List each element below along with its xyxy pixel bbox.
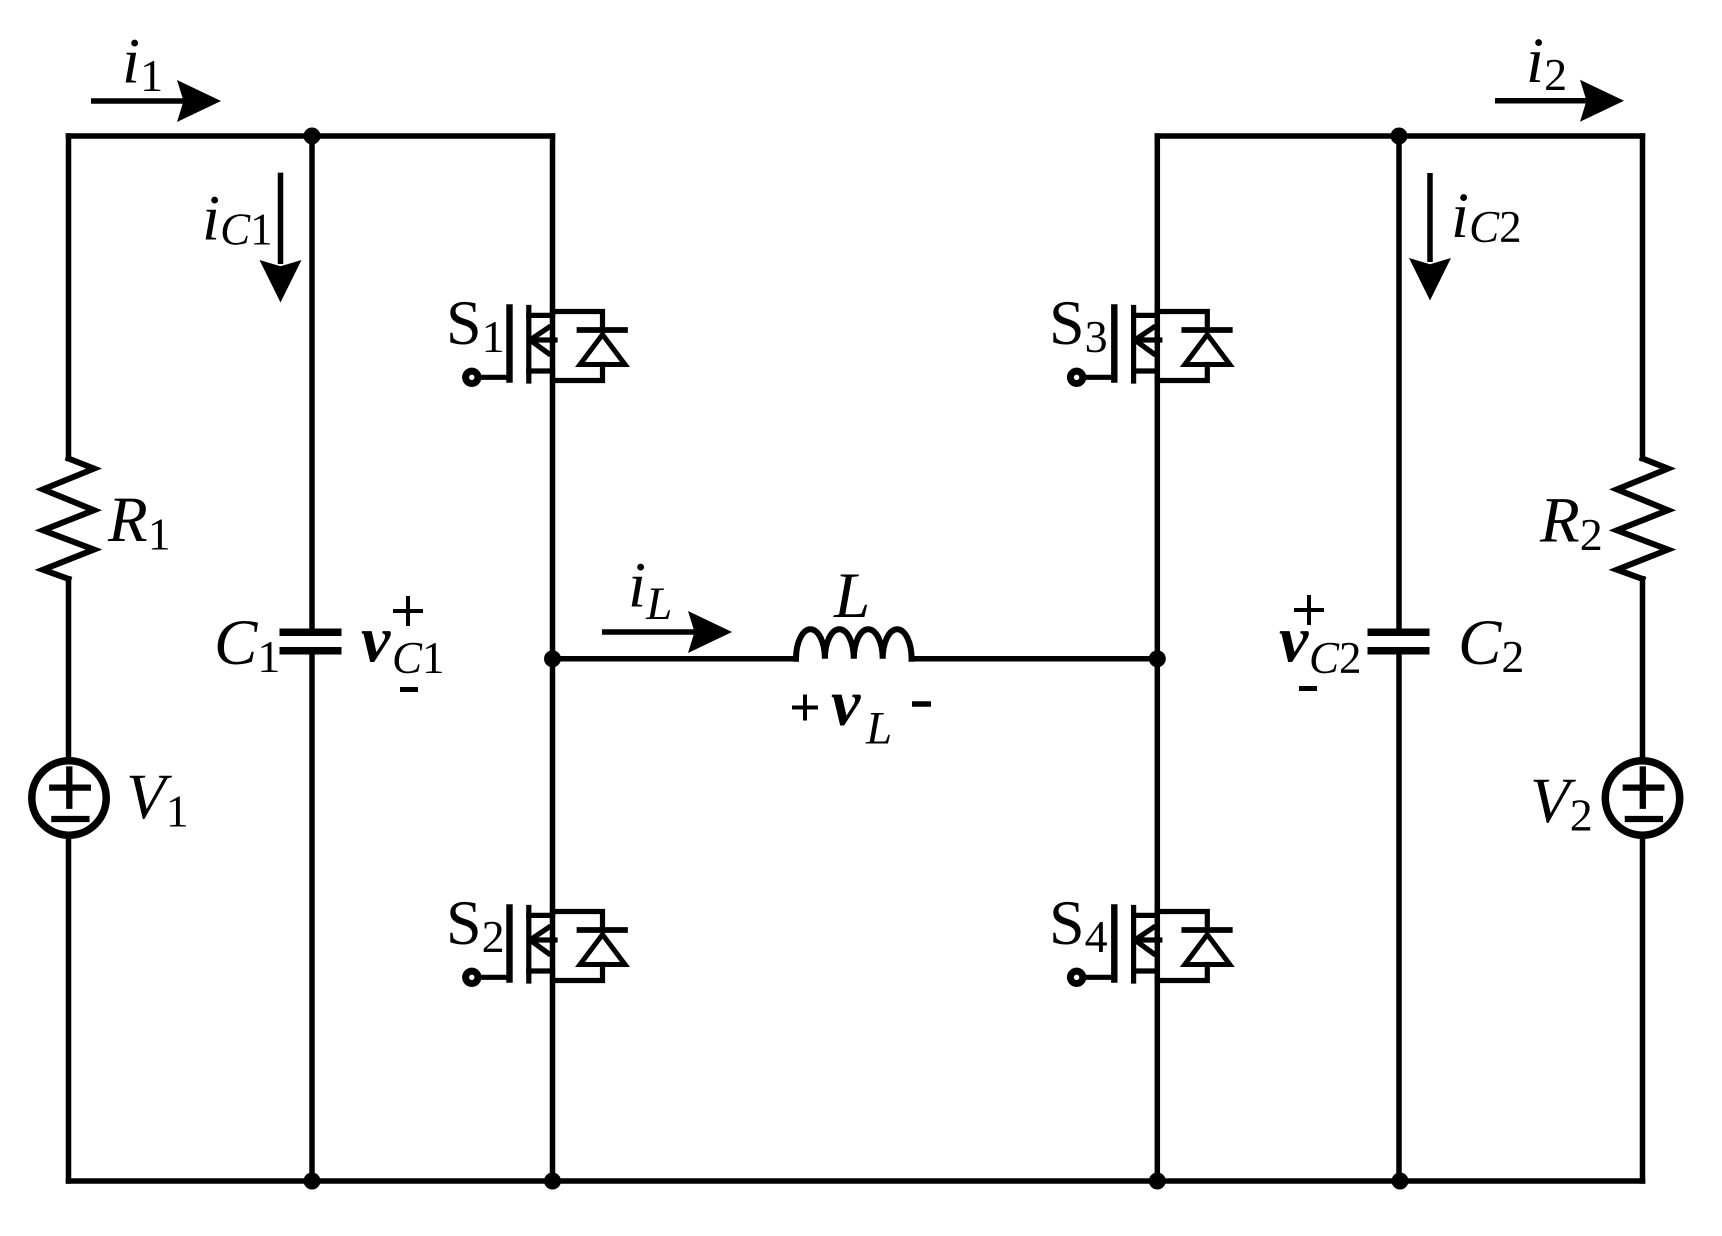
- svg-text:V2: V2: [1530, 765, 1593, 841]
- S4 body diode cathode bar: [1184, 927, 1230, 933]
- V1 minus mark: [54, 816, 86, 822]
- transistor S3 (MOSFET with body diode): [1070, 308, 1229, 384]
- S3 body arrow: [1135, 328, 1160, 354]
- S1 body diode return wire: [553, 365, 603, 381]
- wire switch leg left (S1/S2 branch): [550, 136, 556, 1181]
- wire right outer top segment: [1640, 136, 1646, 459]
- S1 gate bar: [506, 308, 512, 380]
- svg-text:S3: S3: [1049, 287, 1108, 362]
- current arrow iC2: [1409, 173, 1451, 301]
- voltage source V1: [32, 761, 106, 835]
- wire middle left (node A to inductor): [553, 656, 797, 662]
- C1 bottom plate: [280, 647, 342, 655]
- S3 gate terminal circle: [1070, 371, 1082, 383]
- S2 gate terminal circle: [466, 971, 478, 983]
- svg-text:iC1: iC1: [202, 183, 273, 255]
- wire bottom horizontal bus: [69, 1178, 1643, 1184]
- svg-text:iL: iL: [628, 550, 672, 631]
- S1 drain stub wire: [529, 313, 553, 318]
- capacitor C1: [280, 632, 342, 651]
- S2 body diode return wire: [553, 965, 603, 981]
- node A middle-left junction: [544, 650, 561, 667]
- resistor R2: [1617, 459, 1668, 579]
- svg-text:v: v: [361, 604, 391, 677]
- V2 minus mark: [1628, 816, 1660, 822]
- svg-text:C1: C1: [214, 607, 280, 682]
- capacitor C2: [1368, 632, 1430, 651]
- svg-text:S2: S2: [446, 887, 505, 962]
- svg-text:v: v: [1279, 604, 1309, 677]
- S2 body diode triangle: [580, 935, 625, 965]
- node B middle-right junction: [1149, 650, 1166, 667]
- svg-text:i1: i1: [122, 26, 163, 102]
- S2 drain stub wire: [529, 913, 553, 918]
- S1 body diode anode-cathode loop wire: [553, 312, 603, 331]
- S2 source stub wire: [529, 968, 553, 973]
- S2 channel dashes: [526, 908, 531, 982]
- inductor L: [796, 629, 912, 659]
- S3 body diode cathode bar: [1184, 327, 1230, 333]
- S3 body diode anode-cathode loop wire: [1157, 312, 1207, 331]
- svg-text:S1: S1: [446, 287, 505, 362]
- wire left outer middle segment: [66, 579, 72, 760]
- S3 body diode return wire: [1157, 365, 1207, 381]
- current arrow iL: [602, 611, 732, 653]
- S4 body diode return wire: [1157, 965, 1207, 981]
- wire C1 branch upper: [309, 136, 315, 629]
- V2 plus mark: [1626, 770, 1662, 806]
- S2 gate lead wire: [478, 975, 510, 980]
- S4 gate terminal circle: [1070, 971, 1082, 983]
- C1 top plate: [280, 629, 342, 637]
- wire left outer bottom segment: [66, 836, 72, 1181]
- S3 gate bar: [1111, 308, 1117, 380]
- wire C2 branch upper: [1396, 136, 1402, 629]
- wire switch leg right (S3/S4 branch): [1155, 136, 1161, 1181]
- C2 top plate: [1368, 629, 1430, 637]
- node bottom junction S leg right: [1149, 1173, 1166, 1190]
- S1 body arrow: [530, 328, 555, 354]
- S4 body arrow: [1135, 928, 1160, 954]
- S4 drain stub wire: [1134, 913, 1158, 918]
- S4 body diode triangle: [1185, 935, 1230, 965]
- wire top bus right segment: [1157, 133, 1642, 139]
- node top-right junction: [1391, 128, 1408, 145]
- svg-text:C2: C2: [1458, 607, 1524, 682]
- node bottom junction S leg left: [544, 1173, 561, 1190]
- svg-text:i2: i2: [1526, 25, 1567, 100]
- S1 gate lead wire: [478, 375, 510, 380]
- svg-text:L: L: [865, 703, 892, 755]
- S4 gate bar: [1111, 908, 1117, 980]
- svg-text:C1: C1: [392, 633, 445, 683]
- wire right outer bottom segment: [1640, 836, 1646, 1181]
- transistor S4 (MOSFET with body diode): [1070, 908, 1229, 984]
- current arrow i1: [91, 80, 221, 122]
- label vL with polarity: [792, 667, 931, 755]
- S2 body diode cathode bar: [580, 927, 626, 933]
- S1 gate terminal circle: [466, 371, 478, 383]
- svg-text:v: v: [831, 667, 861, 740]
- transistor S2 (MOSFET with body diode): [466, 908, 625, 984]
- node top-left junction: [304, 128, 321, 145]
- S3 drain stub wire: [1134, 313, 1158, 318]
- S4 channel dashes: [1131, 908, 1136, 982]
- S2 body arrow: [530, 928, 555, 954]
- resistor R1: [43, 459, 94, 579]
- svg-text:V1: V1: [126, 761, 189, 837]
- V1 plus mark: [52, 770, 88, 806]
- wire top bus left segment: [69, 133, 553, 139]
- label vC1 with polarity: [361, 596, 445, 690]
- wire middle right (inductor to node B): [912, 656, 1158, 662]
- S2 gate bar: [506, 908, 512, 980]
- svg-text:S4: S4: [1049, 887, 1108, 962]
- wire right outer middle segment: [1640, 579, 1646, 760]
- C2 bottom plate: [1368, 647, 1430, 655]
- current arrow iC1: [260, 173, 302, 303]
- S3 body diode triangle: [1185, 335, 1230, 365]
- svg-text:C2: C2: [1309, 633, 1362, 683]
- S1 source stub wire: [529, 368, 553, 373]
- S3 gate lead wire: [1083, 375, 1115, 380]
- node bottom junction C1: [304, 1173, 321, 1190]
- svg-text:iC2: iC2: [1451, 180, 1522, 252]
- current arrow i2: [1495, 80, 1624, 122]
- S1 body diode cathode bar: [580, 327, 626, 333]
- wire C2 branch lower: [1396, 655, 1402, 1182]
- S1 body diode triangle: [580, 335, 625, 365]
- wire left outer top segment: [66, 136, 72, 459]
- transistor S1 (MOSFET with body diode): [466, 308, 625, 384]
- S2 body diode anode-cathode loop wire: [553, 912, 603, 931]
- S4 body diode anode-cathode loop wire: [1157, 912, 1207, 931]
- S3 channel dashes: [1131, 308, 1136, 382]
- label vC2 with polarity: [1279, 595, 1362, 689]
- svg-text:R2: R2: [1539, 485, 1603, 561]
- S3 source stub wire: [1134, 368, 1158, 373]
- S4 source stub wire: [1134, 968, 1158, 973]
- wire C1 branch lower: [309, 655, 315, 1182]
- S1 channel dashes: [526, 308, 531, 382]
- node bottom junction C2: [1392, 1173, 1409, 1190]
- S4 gate lead wire: [1083, 975, 1115, 980]
- voltage source V2: [1605, 761, 1679, 835]
- svg-text:R1: R1: [107, 484, 171, 560]
- svg-text:L: L: [833, 560, 870, 632]
